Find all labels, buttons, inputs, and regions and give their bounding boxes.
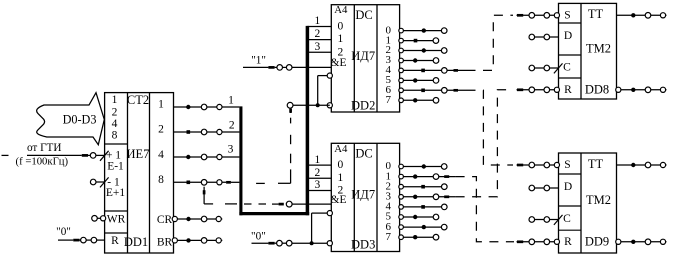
- DD3 input wire labels: [315, 154, 321, 191]
- svg-text:2: 2: [112, 107, 118, 119]
- decoder DD2 ИД7 box: [331, 5, 399, 112]
- flip-flop DD9 TM2 box: [559, 153, 617, 253]
- inversion bubble on WR pin: [101, 216, 106, 221]
- DD8 D input chain: [529, 34, 559, 40]
- wire to DD2 E1 pin: [292, 66, 331, 68]
- DD8 output notQ bubble: [616, 87, 621, 92]
- wire from ГТИ to +1 input: [2, 154, 91, 157]
- svg-text:DD1: DD1: [124, 235, 148, 249]
- wire BR output: [176, 238, 223, 244]
- wire bundle bottom run: [239, 212, 309, 215]
- DD8 output Q wire: [617, 13, 667, 19]
- svg-text:DD9: DD9: [585, 235, 609, 249]
- DD8 dynamic slash on C: [554, 63, 563, 73]
- jumper DD3 output3 to DD8 R: [456, 90, 513, 197]
- connector socket on -1 pin: [90, 179, 96, 185]
- svg-text:1: 1: [315, 154, 321, 166]
- svg-text:D0-D3: D0-D3: [63, 112, 97, 126]
- socket at DD2 E3: [287, 102, 293, 108]
- DD9 R input bubble: [554, 239, 559, 244]
- counter DD1 ИЕ7 box: [105, 93, 174, 253]
- svg-text:3: 3: [315, 41, 321, 53]
- decoder DD3 ИД7 box: [331, 143, 399, 251]
- svg-text:8: 8: [158, 174, 164, 186]
- wire socket to WR bubble: [97, 217, 100, 219]
- svg-text:ИД7: ИД7: [351, 188, 375, 202]
- DD8 C input chain: [529, 65, 559, 71]
- jumper DD2 output4 to DD8 S: [467, 15, 514, 70]
- DD8 S input bubble: [554, 13, 559, 18]
- svg-text:D: D: [564, 30, 572, 42]
- wire bundle right riser: [306, 26, 310, 215]
- svg-text:2: 2: [315, 167, 321, 179]
- DD2 output 0 wire: [399, 28, 447, 34]
- svg-text:2: 2: [315, 28, 321, 40]
- wire to DD3 E3 pin: [292, 242, 327, 244]
- svg-text:&E: &E: [331, 57, 347, 69]
- svg-text:S: S: [564, 10, 570, 22]
- DD2 output 1 wire: [399, 38, 439, 44]
- jumper wire output8 to DD3 enable: [203, 187, 284, 206]
- svg-text:3: 3: [228, 144, 234, 156]
- wire counter output 8 to bundle: [174, 180, 240, 186]
- wire 0-const to DD3 E3: [252, 242, 277, 245]
- DD2 output 4 wire: [399, 68, 467, 74]
- DD1 input pin labels 1 2 4 8: [112, 94, 118, 142]
- svg-text:DD3: DD3: [351, 237, 375, 251]
- svg-text:DC: DC: [355, 8, 372, 22]
- DD3 output 2 wire: [399, 184, 447, 190]
- DD9 output notQ wire: [621, 239, 667, 245]
- wire 1-const to DD2 E1: [243, 66, 277, 69]
- DD2 enable E3 bubble: [327, 103, 332, 108]
- connector pair on E3 wire: [277, 240, 292, 246]
- DD1 output pin labels 1 2 4 8: [158, 99, 164, 187]
- svg-text:R: R: [564, 236, 572, 248]
- inversion bubble on CR: [172, 216, 177, 221]
- DD2 output 5 wire: [399, 78, 439, 84]
- svg-text:1: 1: [112, 94, 118, 106]
- svg-text:C: C: [563, 213, 571, 225]
- svg-text:DD8: DD8: [585, 83, 609, 97]
- svg-text:ИД7: ИД7: [351, 49, 375, 63]
- DD9 S input bubble: [554, 162, 559, 167]
- wire DD2 E3 socket to pin: [293, 104, 330, 106]
- DD9 R input chain: [517, 239, 555, 245]
- DD2 enable E2 bubble and tie: [316, 73, 333, 107]
- DD9 D input chain: [529, 185, 559, 191]
- DD3 address input wires 1 2 3: [307, 165, 331, 190]
- wire 0-const to R pin: [58, 239, 81, 242]
- svg-text:7: 7: [385, 231, 391, 243]
- svg-text:TM2: TM2: [586, 193, 611, 207]
- DD2 address input wires 1 2 3: [307, 27, 331, 53]
- svg-text:4: 4: [112, 118, 118, 130]
- wire DD3 E1 socket to pin: [292, 203, 331, 205]
- svg-text:ИЕ7: ИЕ7: [127, 147, 150, 161]
- connector socket on +1 wire: [90, 153, 96, 159]
- bus arrow D0-D3: [37, 93, 105, 145]
- svg-text:1: 1: [338, 33, 344, 45]
- svg-text:D: D: [564, 181, 572, 193]
- svg-text:S: S: [564, 159, 570, 171]
- svg-text:BR: BR: [157, 237, 173, 249]
- DD2 input wire labels: [315, 15, 321, 53]
- DD3 address pin labels 0 1 2: [338, 159, 344, 197]
- socket at DD3 E1: [286, 201, 292, 207]
- svg-text:0: 0: [338, 21, 344, 33]
- wire counter output 2 to bundle, node 2: [174, 129, 240, 135]
- DD3 output 7 wire: [399, 234, 439, 240]
- DD3 output 6 wire: [399, 224, 447, 230]
- DD8 R input bubble: [554, 87, 559, 92]
- DD2 output 2 wire: [399, 48, 447, 54]
- svg-text:2: 2: [158, 124, 164, 136]
- connector pair on E1 wire: [277, 65, 292, 71]
- svg-text:"0": "0": [251, 230, 266, 242]
- DD9 output notQ bubble: [616, 239, 621, 244]
- jumper DD3 output1 to DD9 R: [456, 177, 514, 242]
- svg-text:0: 0: [338, 159, 344, 171]
- svg-text:DC: DC: [355, 147, 372, 161]
- DD9 S input chain: [517, 162, 555, 168]
- wire counter output 4 to bundle, node 3: [174, 154, 240, 160]
- svg-text:4: 4: [158, 149, 164, 161]
- svg-text:CR: CR: [157, 214, 173, 226]
- svg-text:R: R: [111, 235, 119, 247]
- wire socket to +1 pin: [96, 154, 105, 156]
- wire CR output: [176, 216, 223, 222]
- svg-text:от ГТИ: от ГТИ: [27, 142, 62, 154]
- svg-text:&E: &E: [331, 194, 347, 206]
- DD2 address pin labels 0 1 2: [338, 21, 344, 59]
- DD3 output 1 wire: [399, 174, 456, 180]
- svg-text:1: 1: [228, 94, 234, 106]
- dynamic slash on -1 pin: [100, 177, 109, 187]
- svg-text:7: 7: [385, 94, 391, 106]
- svg-text:2: 2: [229, 119, 235, 131]
- DD9 output Q wire: [617, 162, 667, 168]
- svg-text:3: 3: [315, 179, 321, 191]
- svg-text:E-1: E-1: [107, 161, 124, 173]
- jumper DD2 output6 to DD9 S: [467, 90, 514, 165]
- svg-text:C: C: [563, 61, 571, 73]
- svg-text:DD2: DD2: [351, 99, 375, 113]
- DD3 output 5 wire: [399, 214, 439, 220]
- inversion bubble on BR: [172, 238, 177, 243]
- svg-text:1: 1: [315, 15, 321, 27]
- svg-text:A4: A4: [334, 143, 348, 155]
- svg-text:"1": "1": [251, 55, 266, 67]
- DD8 S input chain: [517, 13, 555, 19]
- jumper wire to DD2 enable E3: [256, 109, 292, 184]
- svg-text:R: R: [564, 84, 572, 96]
- DD2 output 7 wire: [399, 98, 439, 104]
- svg-text:(f =100кГц): (f =100кГц): [16, 155, 69, 167]
- wire to R pin: [97, 239, 105, 241]
- DD8 output notQ wire: [621, 87, 667, 93]
- dynamic slash on +1 pin: [100, 151, 109, 161]
- svg-text:CT2: CT2: [127, 93, 149, 107]
- DD3 output 3 wire: [399, 194, 456, 200]
- svg-text:TT: TT: [588, 157, 604, 171]
- svg-text:TM2: TM2: [586, 41, 611, 55]
- svg-text:A4: A4: [334, 4, 348, 16]
- wire socket to -1 pin: [96, 181, 105, 183]
- wire counter output 1 to bundle, node 1: [174, 104, 240, 110]
- DD8 R input chain: [517, 87, 555, 93]
- connector socket on WR pin: [92, 216, 98, 222]
- DD9 dynamic slash on C: [554, 215, 563, 225]
- svg-text:"0": "0": [56, 226, 71, 238]
- wire bundle left riser: [239, 106, 242, 215]
- svg-text:1: 1: [158, 99, 164, 111]
- DD2 output 3 wire: [399, 58, 439, 64]
- connector pair on R wire: [81, 237, 97, 243]
- svg-text:E+1: E+1: [106, 187, 126, 199]
- flip-flop DD8 TM2 box: [559, 3, 617, 99]
- svg-text:TT: TT: [588, 7, 604, 21]
- DD3 output 4 wire: [399, 204, 447, 210]
- DD3 enable E3 bubble: [327, 241, 332, 246]
- svg-text:WR: WR: [107, 213, 126, 225]
- svg-text:1: 1: [338, 172, 344, 184]
- DD9 C input chain: [529, 217, 559, 223]
- DD3 enable E2 bubble and tie: [310, 211, 333, 246]
- svg-text:8: 8: [112, 130, 118, 142]
- DD2 output 6 wire: [399, 88, 467, 94]
- DD3 output 0 wire: [399, 164, 447, 170]
